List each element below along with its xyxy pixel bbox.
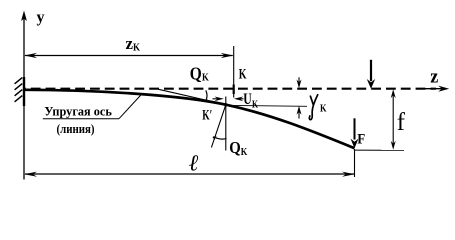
svg-text:y: y	[37, 9, 45, 26]
dimension U_K	[213, 97, 244, 102]
angle arc theta_K lower	[212, 136, 226, 140]
svg-text:Q: Q	[190, 63, 202, 83]
dimension l line	[24, 172, 355, 177]
svg-text:Упругая ось: Упругая ось	[44, 105, 112, 119]
K extension line	[233, 46, 235, 98]
force position arrow on axis	[367, 60, 375, 89]
svg-text:K′: K′	[202, 108, 212, 124]
K' level line	[226, 104, 307, 107]
svg-text:Q: Q	[229, 138, 241, 157]
label Q_K lower	[229, 138, 248, 158]
angle arc theta_K upper	[204, 90, 208, 102]
label Uprugaja os'	[43, 105, 119, 119]
wall line	[23, 77, 25, 106]
z-axis dashed line	[25, 88, 436, 90]
svg-text:K: K	[241, 147, 248, 158]
label y_K (script y)	[309, 95, 327, 120]
svg-text:(линия): (линия)	[57, 121, 95, 136]
y-axis	[21, 11, 27, 180]
tangent line at K'	[159, 89, 231, 105]
f extension line	[355, 149, 405, 151]
svg-text:ℓ: ℓ	[189, 150, 199, 175]
rotated cross-section line at K'	[211, 105, 225, 148]
K tick on dashed axis	[233, 85, 235, 95]
wall hatch stroke 4	[15, 96, 23, 102]
z-axis arrow	[423, 86, 449, 92]
dimension z_K line	[24, 53, 233, 58]
svg-text:K: K	[202, 73, 209, 84]
svg-text:f: f	[397, 109, 406, 136]
svg-text:z: z	[430, 66, 439, 87]
label z_K	[126, 34, 141, 54]
dimension f	[391, 89, 396, 149]
wall hatch stroke 2	[15, 84, 23, 90]
wall hatch stroke 3	[15, 90, 23, 96]
wall hatch stroke 1	[15, 78, 23, 84]
svg-text:K: K	[133, 43, 141, 54]
svg-text:F: F	[357, 132, 365, 148]
dimension y_K bottom arrow	[297, 106, 302, 119]
dimension y_K top arrow	[297, 77, 302, 88]
svg-text:K: K	[252, 99, 259, 110]
node K'	[224, 103, 227, 106]
leader line	[119, 95, 141, 119]
label Q_K upper	[190, 63, 210, 83]
svg-text:K: K	[320, 104, 327, 115]
label U_K	[243, 91, 258, 111]
elastic line (beam curve)	[24, 90, 355, 148]
cross-section line through K' (vertical)	[225, 97, 227, 151]
svg-text:K: K	[239, 67, 247, 83]
force F arrow	[351, 118, 359, 148]
right extension line	[354, 149, 356, 177]
